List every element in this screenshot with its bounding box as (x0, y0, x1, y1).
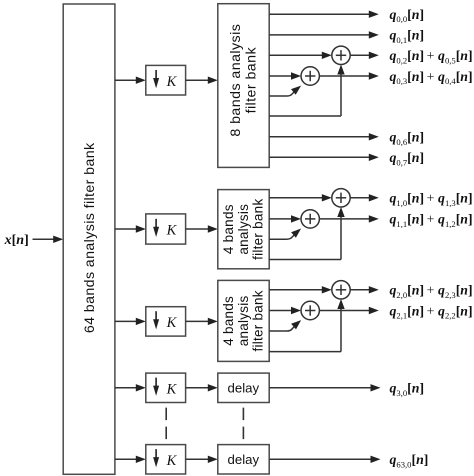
adder: 4-band-A left (+) (301, 210, 319, 228)
svg-text:q0,1[n]: q0,1[n] (390, 28, 425, 45)
wire: 4-band-B row-b into left adder (269, 310, 293, 312)
wire: 4-band-A row-c diagonal into left adder (269, 238, 287, 240)
wire: output q0,7 (269, 156, 371, 158)
svg-text:K: K (166, 74, 178, 90)
wire: 64-band bank to downsampler 3 (115, 320, 138, 322)
svg-text:analysis: analysis (236, 296, 251, 347)
adder: 4-band-B left (+) (301, 301, 319, 319)
block: delay (lower) (218, 445, 269, 474)
wire: downsampler 1 to 8-band block (186, 79, 211, 81)
wire: output q0,0 (269, 13, 371, 15)
adder: 4-band-B right (+) (332, 281, 350, 299)
svg-text:analysis: analysis (236, 204, 251, 255)
wire: 8-band row-d up into right adder (269, 115, 341, 117)
block: 64 bands analysis filter bank (63, 4, 115, 474)
downsampler K block 1 (146, 65, 186, 95)
wire: 8-band row-c diagonal into left adder (269, 95, 287, 97)
wire: 8-band right adder output (350, 54, 371, 56)
wire: 8-band row-b into left adder (269, 75, 293, 77)
downsampler K block 4 (146, 373, 186, 402)
svg-text:q3,0[n]: q3,0[n] (390, 381, 425, 398)
wire: 8-band row-a into right adder (269, 54, 324, 56)
block: 4 bands analysis filter bank (lower) (218, 280, 269, 361)
wire: output q63,0 (269, 458, 372, 460)
wire: input x[n] into 64-band filter bank (33, 238, 56, 240)
adder: 8-band left (+) (301, 67, 319, 85)
wire: 4-band-B row-c diagonal into left adder (269, 330, 287, 332)
wire: 4-band-A row-d up into right adder (269, 259, 341, 261)
svg-text:K: K (166, 453, 178, 469)
dashed continuation line below delay blocks (242, 408, 244, 440)
svg-text:delay: delay (228, 452, 260, 467)
wire: 4-band-A right adder output (350, 197, 371, 199)
svg-text:4 bands: 4 bands (221, 204, 236, 254)
svg-text:K: K (166, 223, 178, 239)
adder: 8-band right (+) (332, 46, 350, 64)
svg-text:64 bands analysis filter bank: 64 bands analysis filter bank (82, 142, 98, 333)
svg-text:q0,0[n]: q0,0[n] (390, 7, 425, 24)
wire: 4-band-A left adder output (319, 218, 371, 220)
block: 8 bands analysis filter bank (218, 4, 269, 168)
wire: 4-band-B row-a into right adder (269, 289, 324, 291)
wire: 64-band bank to downsampler 2 (115, 228, 138, 230)
svg-text:q0,6[n]: q0,6[n] (390, 130, 425, 147)
svg-text:K: K (166, 315, 178, 331)
svg-text:4 bands: 4 bands (221, 296, 236, 346)
wire: 4-band-A row-a into right adder (269, 197, 324, 199)
wire: downsampler 5 to delay B block (186, 458, 211, 460)
svg-text:filter bank: filter bank (244, 47, 260, 114)
wire: 4-band-B left adder output (319, 310, 371, 312)
downsampler K block 2 (146, 214, 186, 244)
wire: 64-band bank to downsampler 1 (115, 79, 138, 81)
svg-text:8 bands analysis: 8 bands analysis (228, 24, 244, 137)
svg-text:delay: delay (228, 380, 260, 395)
wire: downsampler 2 to 4-band A block (186, 228, 211, 230)
wire: 4-band-B row-d up into right adder (269, 351, 341, 353)
svg-text:q0,7[n]: q0,7[n] (390, 150, 425, 167)
svg-text:filter bank: filter bank (251, 199, 266, 260)
dashed continuation line below downsamplers (165, 408, 167, 440)
wire: 64-band bank to downsampler 4 (115, 387, 138, 389)
block: 4 bands analysis filter bank (upper) (218, 190, 269, 269)
wire: 4-band-A row-b into left adder (269, 218, 293, 220)
wire: output q0,6 (269, 136, 371, 138)
wire: output q3,0 (269, 387, 372, 389)
wire: output q0,1 (269, 34, 371, 36)
wire: downsampler 3 to 4-band B block (186, 320, 211, 322)
wire: downsampler 4 to delay A block (186, 387, 211, 389)
downsampler K block 3 (146, 307, 186, 336)
wire: 4-band-B right adder output (350, 289, 371, 291)
svg-text:K: K (166, 381, 178, 397)
downsampler K block 5 (146, 445, 186, 474)
adder: 4-band-A right (+) (332, 189, 350, 207)
svg-text:x[n]: x[n] (4, 233, 29, 248)
svg-text:filter bank: filter bank (251, 290, 266, 351)
wire: 8-band left adder output (319, 75, 371, 77)
block: delay (upper) (218, 373, 269, 402)
wire: 64-band bank to downsampler 5 (115, 458, 138, 460)
